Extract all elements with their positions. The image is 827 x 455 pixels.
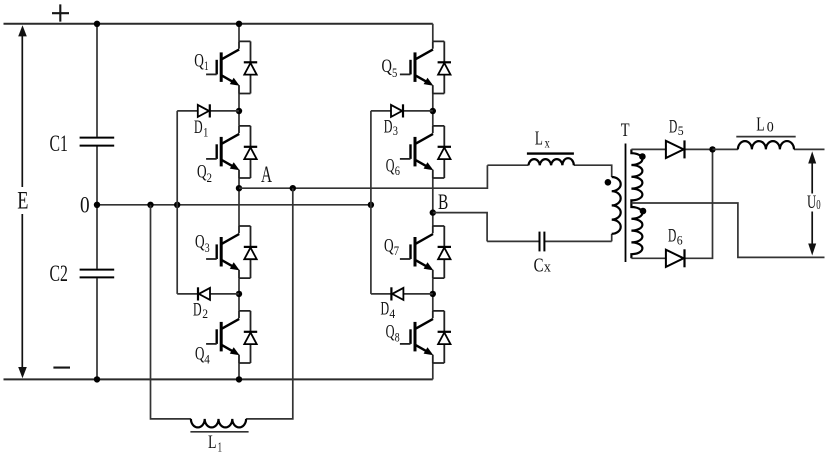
svg-text:2: 2 (207, 170, 213, 185)
transistor Q6 (400, 126, 451, 178)
U0 measure arrow (808, 151, 816, 255)
label - (53, 367, 70, 369)
E measure arrow (18, 25, 27, 378)
svg-text:0: 0 (767, 120, 774, 136)
svg-text:1: 1 (218, 439, 222, 454)
svg-text:1: 1 (203, 124, 208, 139)
svg-text:Q: Q (195, 233, 205, 253)
node dot rectifier output (709, 146, 715, 152)
svg-text:2: 2 (202, 306, 208, 321)
wire center tap to output minus (631, 203, 824, 257)
svg-text:T: T (621, 120, 630, 141)
diode D2 (198, 287, 210, 300)
wire left clamp line (176, 111, 178, 294)
diode D3 (391, 104, 403, 117)
wire bottom rail (4, 378, 433, 380)
svg-text:Q: Q (384, 236, 394, 256)
inductor L1 (191, 419, 246, 428)
svg-text:0: 0 (816, 197, 821, 212)
inductor L0 (738, 141, 794, 149)
node dot secondary mid polarity (640, 208, 647, 215)
svg-text:5: 5 (678, 123, 684, 138)
wire dc-link branch (96, 24, 98, 380)
svg-text:A: A (261, 162, 272, 187)
svg-text:x: x (544, 259, 551, 275)
wire right leg segments (432, 24, 434, 380)
svg-text:Q: Q (386, 323, 395, 343)
wire L0 line (713, 148, 825, 150)
svg-text:D: D (384, 118, 393, 138)
node dot bottom rail / dc-link (94, 376, 100, 382)
node dot D2 / left leg (236, 291, 242, 297)
transistor Q2 (206, 126, 257, 178)
node dot top rail / left leg (236, 21, 242, 27)
svg-text:3: 3 (393, 123, 398, 138)
node dot D3 / right leg (430, 108, 436, 114)
svg-text:D: D (669, 117, 677, 137)
svg-text:1: 1 (204, 58, 209, 73)
svg-text:E: E (17, 188, 28, 215)
node dot bottom rail / left leg (236, 376, 242, 382)
svg-text:7: 7 (394, 243, 400, 258)
wire L1 loop (151, 188, 293, 419)
svg-text:D: D (193, 300, 202, 320)
wire D4 (371, 293, 433, 295)
svg-text:5: 5 (392, 65, 397, 80)
svg-text:D: D (668, 227, 676, 247)
wire node A line (239, 165, 487, 188)
wire left leg segments (238, 24, 240, 380)
wire D3 anode (371, 110, 433, 112)
node dot D1 / left leg (236, 108, 242, 114)
transformer T secondary upper winding (631, 149, 642, 203)
transformer T secondary lower winding (631, 203, 642, 258)
svg-text:L: L (208, 432, 217, 453)
inductor Lx (529, 158, 574, 165)
svg-text:L: L (535, 127, 543, 149)
svg-text:0: 0 (80, 193, 90, 218)
transistor Q1 (206, 41, 257, 93)
capacitor C2 (80, 270, 115, 278)
svg-text:Q: Q (386, 156, 395, 176)
transformer T primary winding (612, 177, 621, 234)
wire D6 line (631, 149, 712, 258)
core bar Lx (527, 152, 574, 154)
node dot top rail / dc-link (94, 21, 100, 27)
svg-text:C2: C2 (50, 261, 68, 286)
wire D5 line (631, 148, 712, 150)
svg-text:C: C (534, 254, 544, 276)
svg-text:4: 4 (389, 306, 395, 321)
transistor Q8 (400, 311, 451, 363)
label + (52, 4, 69, 21)
core bar L1 (190, 431, 248, 433)
transistor Q5 (400, 41, 451, 93)
wire top rail (4, 23, 433, 25)
svg-text:6: 6 (677, 232, 683, 247)
wire D1 anode (177, 110, 239, 112)
svg-text:4: 4 (204, 352, 210, 367)
svg-text:B: B (438, 189, 448, 214)
svg-text:3: 3 (205, 240, 210, 255)
capacitor C1 (80, 138, 115, 146)
capacitor Cx (540, 232, 545, 252)
wire Lx line (487, 165, 611, 177)
wire right clamp line (370, 111, 372, 294)
core bar L0 (736, 136, 795, 138)
svg-text:6: 6 (395, 163, 401, 178)
node dot D4 / right leg (430, 291, 436, 297)
wire node B line (433, 213, 487, 242)
wire 0-line (neutral) (97, 204, 371, 206)
node dot 0 / left clamp line (174, 202, 180, 208)
node B (430, 209, 436, 215)
svg-text:L: L (756, 113, 764, 135)
svg-text:D: D (194, 118, 203, 138)
transformer T core (625, 144, 627, 263)
wire D2 (177, 293, 239, 295)
node A (236, 185, 242, 191)
diode D5 (666, 140, 685, 158)
transistor Q4 (206, 311, 257, 363)
svg-text:x: x (545, 136, 550, 151)
svg-text:8: 8 (395, 330, 400, 345)
node dot A / L1 right branch (290, 185, 296, 191)
diode D1 (198, 104, 210, 117)
node dot 0 / dc-link (94, 202, 100, 208)
node dot secondary top polarity (639, 153, 646, 160)
node dot primary polarity (605, 179, 612, 186)
transistor Q7 (400, 226, 451, 278)
diode D4 (391, 287, 403, 300)
node dot 0 / L1 left branch (147, 202, 153, 208)
svg-text:Q: Q (194, 52, 204, 72)
wire Cx line (487, 234, 612, 242)
transistor Q3 (206, 226, 257, 278)
svg-text:Q: Q (382, 57, 393, 77)
svg-text:C1: C1 (50, 131, 68, 156)
node dot 0 / right clamp line (368, 202, 374, 208)
svg-text:U: U (807, 192, 816, 213)
svg-text:D: D (381, 300, 390, 320)
diode D6 (666, 249, 685, 267)
